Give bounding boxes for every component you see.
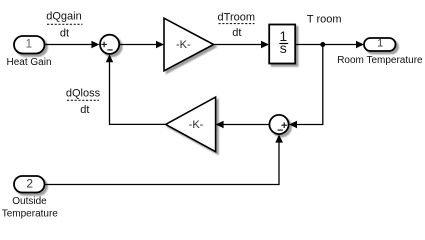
svg-text:dt: dt (232, 27, 241, 39)
svg-text:T room: T room (307, 14, 342, 26)
svg-text:1: 1 (377, 38, 383, 50)
svg-text:Temperature: Temperature (2, 209, 59, 220)
svg-text:Heat Gain: Heat Gain (6, 57, 51, 68)
svg-text:s: s (280, 40, 287, 56)
svg-text:dQgain: dQgain (46, 10, 81, 22)
svg-text:2: 2 (26, 176, 33, 190)
svg-text:dTroom: dTroom (218, 12, 256, 24)
svg-text:-K-: -K- (189, 119, 204, 131)
svg-text:-K-: -K- (176, 39, 191, 51)
svg-text:dQloss: dQloss (66, 88, 101, 100)
svg-text:Room Temperature: Room Temperature (337, 55, 423, 66)
svg-text:dt: dt (60, 28, 69, 40)
svg-text:Outside: Outside (12, 196, 47, 207)
svg-text:1: 1 (25, 37, 32, 51)
svg-text:dt: dt (80, 104, 89, 116)
